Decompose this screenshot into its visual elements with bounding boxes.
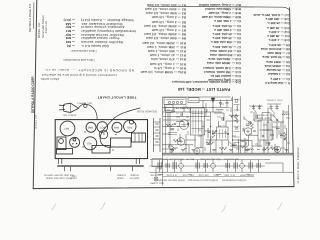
tube V2 6Q7 [177, 138, 185, 146]
trimmer C15 [275, 105, 278, 110]
trimmer C13 [258, 105, 261, 110]
tube position labels [64, 127, 69, 130]
coil winding pair [257, 160, 260, 173]
coil winding pair [234, 160, 237, 173]
speaker cable [100, 108, 140, 148]
wire [263, 124, 267, 126]
wire [173, 107, 175, 112]
pen marks bottom [52, 203, 282, 213]
resistor R1 [171, 145, 174, 153]
coil winding pair [173, 160, 176, 173]
capacitor C16 [219, 100, 222, 108]
wire [184, 148, 187, 150]
wire [210, 112, 212, 153]
tube layout 6K6 [112, 122, 122, 132]
resistor R15 [263, 147, 270, 150]
junction dots [165, 107, 284, 154]
wire [217, 116, 221, 118]
wire [244, 112, 290, 153]
wire [272, 130, 274, 140]
capacitor C3 [222, 117, 223, 121]
wire [167, 112, 169, 127]
wire [187, 131, 189, 135]
grid bus [163, 119, 190, 121]
wire [281, 147, 285, 149]
wire [263, 140, 265, 153]
wire [270, 113, 272, 120]
antenna lead ladder [154, 118, 161, 152]
resistor R13 [240, 146, 248, 149]
band switch wafer [211, 160, 216, 173]
wire [248, 135, 250, 146]
wire [252, 145, 262, 147]
wire [205, 112, 207, 117]
wire [240, 140, 252, 142]
wire [255, 112, 257, 120]
wire [270, 134, 274, 136]
grommet [59, 139, 64, 144]
rectifier plate arrow [211, 98, 215, 102]
B+ bus [162, 106, 229, 108]
wire [265, 160, 283, 173]
ground [170, 150, 174, 152]
ground [285, 150, 289, 152]
wire [223, 113, 225, 121]
wire [250, 111, 253, 113]
wire [283, 111, 289, 113]
wire [185, 106, 187, 108]
tube V1 6A8 [179, 120, 189, 130]
tuning condenser [111, 138, 132, 147]
wire [257, 141, 259, 148]
wire [238, 140, 240, 153]
schematic tiny labels [266, 97, 282, 99]
wire [230, 145, 246, 147]
wire [210, 136, 212, 140]
AVC bus [162, 144, 193, 146]
heading: PARTS LIST - MODEL 140 [172, 86, 234, 90]
wire [266, 142, 270, 144]
wire [215, 140, 217, 153]
wire [233, 139, 248, 141]
ground [229, 150, 233, 152]
wire [186, 116, 189, 118]
wire [206, 139, 216, 141]
ground [192, 150, 196, 152]
tube layout 6L6 [84, 137, 97, 150]
switch contact [227, 133, 229, 135]
IF can B [92, 146, 110, 154]
wire [253, 112, 255, 120]
resistor R14 [251, 122, 254, 130]
IF can A [57, 137, 66, 150]
wire [214, 112, 224, 114]
chassis feet [59, 159, 140, 164]
capacitor C11 [249, 121, 250, 125]
wire [220, 103, 224, 105]
capacitor C4 [256, 115, 257, 119]
coil L5 [282, 114, 289, 115]
ground bus [162, 153, 294, 155]
tube V3 6K6 [244, 128, 251, 135]
screen bus [163, 116, 210, 118]
capacitor C7 [269, 142, 270, 146]
strip upper rail [150, 159, 265, 161]
wire [176, 116, 180, 118]
ground [262, 150, 266, 152]
wire [286, 128, 288, 153]
wire [205, 130, 211, 132]
switch contact [254, 130, 256, 132]
wire [179, 134, 181, 142]
capacitor C10 [276, 127, 280, 128]
wire [262, 129, 273, 131]
switch contact [168, 146, 170, 148]
chassis outline [55, 120, 147, 159]
wire [244, 138, 246, 153]
wire [243, 128, 245, 132]
note: no ground necessary [37, 68, 134, 72]
mounting board [58, 165, 144, 166]
switch strip rail [150, 165, 266, 167]
wire [276, 122, 278, 138]
wire [243, 116, 245, 120]
wire [246, 134, 258, 136]
wire [225, 121, 227, 127]
wire [267, 107, 269, 153]
capacitor C1 [171, 129, 175, 130]
tube layout 6X5 [124, 120, 136, 133]
wire [176, 121, 184, 123]
wire [174, 147, 178, 149]
switch contact [187, 123, 189, 125]
oscillator coil shield [57, 149, 73, 155]
wire [224, 131, 227, 133]
power transformer [132, 133, 146, 142]
coil L4 [247, 149, 254, 150]
socket dots [82, 130, 127, 150]
wire [282, 110, 284, 153]
wire [262, 112, 270, 114]
capacitor C20 [280, 134, 283, 135]
speaker field coil [188, 98, 199, 103]
IF transformer T1 [191, 108, 205, 135]
wire [288, 105, 290, 153]
wire [185, 134, 187, 153]
wire [284, 125, 286, 129]
resistor R11 [166, 124, 174, 127]
band switch wafer [240, 160, 245, 173]
wire [271, 145, 273, 149]
wire [162, 148, 176, 150]
capacitor C8 [212, 132, 216, 133]
margin text: manual index entry [29, 2, 32, 32]
wire [261, 113, 263, 120]
wire [272, 126, 277, 128]
wire [188, 145, 190, 154]
capacitor C6 [207, 143, 211, 144]
wire [194, 135, 196, 148]
electrolytic can [70, 137, 80, 147]
wire diagonal [229, 116, 279, 146]
wire [226, 109, 229, 111]
wire [177, 129, 179, 132]
wire [203, 100, 206, 112]
ground [212, 150, 216, 152]
resistor R5 [212, 130, 215, 138]
wire [186, 139, 196, 141]
oscillator coil L2 [168, 133, 177, 135]
detector transformer T4 [217, 127, 229, 140]
resistor R4 [206, 142, 214, 145]
wire [278, 130, 280, 135]
tube V5 ballast [194, 148, 200, 154]
switch contact [245, 143, 247, 145]
tube V4 eye [274, 146, 280, 152]
rectifier filter chain [231, 96, 241, 153]
page frame [33, 0, 37, 189]
wire [218, 121, 220, 127]
chassis labels [77, 101, 92, 103]
wire [202, 122, 204, 154]
coil winding pair [204, 160, 207, 173]
wire [198, 135, 202, 137]
schematic border top [162, 96, 230, 98]
wire [166, 112, 173, 114]
wire [228, 140, 230, 146]
power cord loop [79, 104, 98, 120]
label symbols row [158, 174, 250, 176]
coil winding pair [158, 160, 161, 173]
wire [265, 140, 267, 146]
wire [196, 147, 203, 149]
capacitor C19 [246, 124, 249, 125]
AC plug [59, 103, 78, 112]
wire [251, 141, 253, 154]
tube layout 6A8 [86, 122, 96, 132]
dial lamp assembly [152, 159, 163, 181]
IF transformer T2 [258, 120, 272, 140]
wire [232, 135, 236, 137]
wire [169, 112, 171, 153]
resistor R7 [284, 132, 287, 140]
wire [206, 119, 210, 121]
resistor R12 [173, 139, 181, 142]
coil winding pair [249, 160, 252, 173]
capacitor C5 [208, 131, 212, 132]
wire [171, 111, 175, 113]
wire [249, 133, 252, 135]
wire [212, 97, 214, 112]
coil winding pair [166, 160, 169, 173]
shield can circle [99, 130, 108, 139]
wire [187, 120, 189, 127]
coil winding pair [226, 160, 229, 173]
ground [245, 150, 249, 152]
capacitor C2 [181, 113, 182, 117]
ground [181, 150, 185, 152]
coil winding pair [196, 160, 199, 173]
capacitor C9 [232, 144, 236, 145]
tube layout 6K7 [60, 121, 75, 136]
heater bus [162, 126, 186, 128]
wire [280, 122, 282, 138]
wire [167, 109, 170, 111]
trimmer C14 [269, 105, 273, 112]
wire [165, 107, 167, 153]
speaker socket [165, 105, 174, 111]
wire [183, 107, 185, 112]
wire [273, 121, 283, 123]
heading: TUBE LAYOUT CHART [96, 95, 136, 98]
wire [230, 107, 232, 112]
wire [226, 120, 239, 122]
wire [181, 120, 183, 122]
resistor R9 [270, 147, 278, 150]
wire [274, 144, 276, 153]
wire [287, 142, 290, 144]
label rule [163, 175, 254, 177]
trimmer C12 [252, 105, 256, 112]
resistor R10 [229, 115, 237, 118]
control shafts [65, 167, 133, 171]
plate bus [162, 111, 222, 113]
switch contact [174, 123, 176, 125]
wire [242, 128, 244, 132]
wire [204, 147, 206, 151]
wire [241, 141, 245, 143]
capacitor C17 [226, 100, 229, 108]
band switch base wire [150, 171, 294, 173]
coil L3 [216, 109, 223, 110]
wire [255, 143, 258, 145]
band switch wafer [179, 160, 184, 173]
ground [275, 150, 279, 152]
switch contact [262, 135, 264, 137]
wire [257, 149, 260, 151]
wire [259, 141, 261, 148]
wire [189, 107, 191, 113]
schematic border left [161, 97, 163, 186]
switch contact [215, 130, 217, 132]
wire [200, 135, 202, 148]
tube layout 6Q7 [97, 122, 108, 133]
resistor R8 [219, 147, 227, 150]
wire [236, 148, 240, 150]
output transformer T3 [164, 98, 186, 105]
switch contact [284, 138, 286, 140]
wire [199, 99, 233, 101]
switch contact [276, 119, 278, 121]
wire [206, 109, 208, 112]
wire [221, 140, 223, 153]
wire [207, 128, 209, 138]
wire [249, 104, 281, 106]
wire [162, 133, 170, 135]
wire [254, 120, 262, 122]
